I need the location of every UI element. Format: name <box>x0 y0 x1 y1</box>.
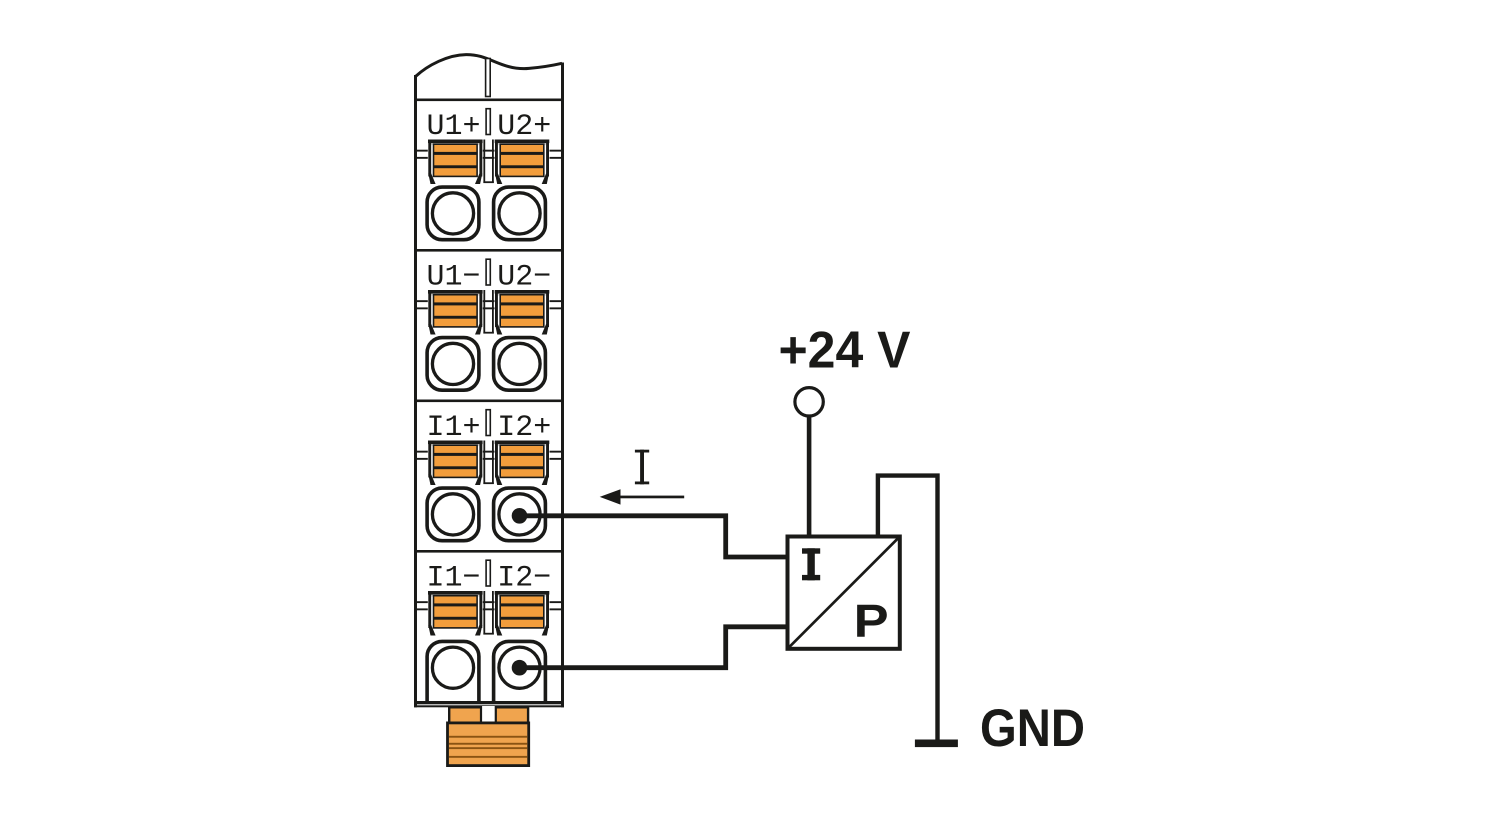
module bottom edge <box>414 701 564 704</box>
terminal block module <box>414 55 564 704</box>
svg-text:U2−: U2− <box>497 261 551 295</box>
inter-clamp slot <box>483 441 493 485</box>
clamp row guide line <box>417 150 561 152</box>
svg-text:I2−: I2− <box>497 562 551 596</box>
connector ribs <box>449 736 527 758</box>
svg-text:GND: GND <box>980 699 1085 758</box>
module torn top edge <box>416 55 563 77</box>
converter label I <box>802 548 820 580</box>
module left edge <box>414 75 417 704</box>
label slot divider <box>486 259 490 285</box>
label slot divider <box>486 410 490 436</box>
clamp U1+ <box>428 140 483 185</box>
svg-text:U2+: U2+ <box>497 110 551 144</box>
node I2+ wire dot <box>512 508 528 524</box>
label slot divider <box>486 560 490 586</box>
inter-clamp slot <box>483 140 493 184</box>
clamp U2+ <box>495 140 550 185</box>
section divider line <box>415 249 563 252</box>
clamp I2+ <box>495 441 550 486</box>
wire +24V to converter <box>807 416 812 535</box>
clamp I2− <box>495 591 550 636</box>
clamp row guide line <box>417 601 561 603</box>
section divider line <box>415 400 563 403</box>
section divider line <box>415 550 563 553</box>
clamp U2− <box>495 290 550 335</box>
wire entry hole U2− <box>494 338 546 391</box>
I/P converter box <box>788 537 900 649</box>
svg-text:U1−: U1− <box>426 261 480 295</box>
wire entry hole U1+ <box>427 187 479 240</box>
clamp row guide line <box>417 300 561 302</box>
wire I2- return from converter <box>520 627 787 668</box>
clamp row guide line <box>417 307 561 309</box>
clamp U1− <box>428 290 483 335</box>
section divider line <box>415 99 563 102</box>
wire entry hole I1+ <box>427 488 479 541</box>
inter-clamp slot <box>483 290 493 334</box>
wire converter to GND <box>878 476 938 740</box>
current direction arrow <box>600 489 685 504</box>
wire entry hole I2− <box>494 641 546 701</box>
svg-text:P: P <box>854 595 889 647</box>
label slot divider <box>486 109 490 135</box>
bottom connector body <box>448 723 529 766</box>
clamp row guide line <box>417 157 561 159</box>
bottom connector tab <box>449 707 528 723</box>
clamp row guide line <box>417 451 561 453</box>
clamp row guide line <box>417 458 561 460</box>
svg-text:I1−: I1− <box>426 562 480 596</box>
supply terminal circle <box>795 388 823 416</box>
current label I <box>635 450 649 485</box>
svg-text:U1+: U1+ <box>426 110 480 144</box>
clamp I1+ <box>428 441 483 486</box>
wire entry hole I1− <box>427 641 479 701</box>
clamp row guide line <box>417 608 561 610</box>
wire entry hole I2+ <box>494 488 546 541</box>
top center slot <box>486 59 491 97</box>
wire entry hole U1− <box>427 338 479 391</box>
module bottom plate <box>414 701 564 707</box>
node I2- wire dot <box>512 660 528 676</box>
ground bar <box>915 740 958 748</box>
inter-clamp slot <box>483 591 493 635</box>
wire I2+ to converter input <box>520 516 787 557</box>
svg-text:I2+: I2+ <box>497 411 551 445</box>
svg-text:I1+: I1+ <box>426 411 480 445</box>
clamp I1− <box>428 591 483 636</box>
connector tab notch <box>480 706 497 723</box>
svg-text:+24 V: +24 V <box>779 322 911 380</box>
module right edge <box>561 63 564 705</box>
wire entry hole U2+ <box>494 187 546 240</box>
